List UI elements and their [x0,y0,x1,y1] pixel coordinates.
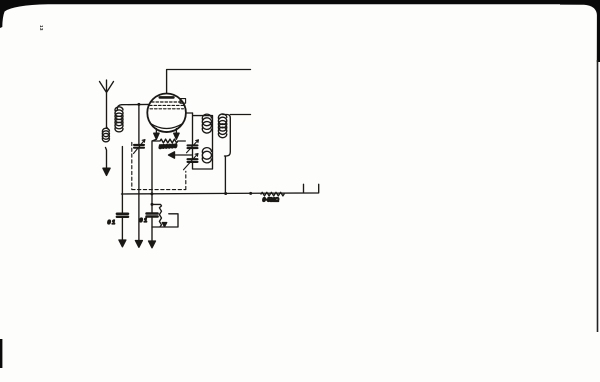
resistor R1 500000 [153,139,185,143]
svg-text:500000: 500000 [159,144,177,151]
wire: V1 grid cap riser [167,70,251,94]
V1 cathode arcs [151,124,183,132]
capacitor C2 0.1 [151,194,153,213]
wire: L4 top to IF rail [230,114,250,116]
ganged tuning dashed links [132,142,186,189]
potentiometer P1 [152,204,162,226]
node: potentiometer tap [151,203,154,206]
antenna lead arrow [103,168,110,175]
svg-text:0 1: 0 1 [108,220,116,226]
svg-text:0 1: 0 1 [140,218,148,224]
antenna coupling coil L1 [102,128,109,142]
node dots on bus A [150,192,153,195]
variable capacitor CV3 [188,159,198,162]
resistor R2 0.5M on bus A [261,192,284,196]
scan artifact: top-right corner black rounded edge [560,0,600,62]
V1 side contact square [180,99,186,104]
V1 top cap [160,96,174,99]
main bus A (chassis) [122,184,319,194]
triode V1 [147,94,186,133]
tuning coil L2 [121,147,123,195]
variable capacitor CV2 [188,145,198,148]
wire: L4 bottom down to bus [224,156,226,194]
svg-text:0·5MΩ: 0·5MΩ [263,198,280,204]
svg-text:13: 13 [39,25,44,31]
antenna [100,80,114,127]
wire: varcap to bus [138,149,140,241]
wire: V1 plate lead to oscillator coil [186,112,193,114]
scan artifact: top edge black strip with curved top-left corner [0,0,600,28]
ground lead 2 [138,240,140,242]
variable capacitor CV1 [134,145,144,148]
V1 filament pin arrows [155,129,157,134]
oscillator pickup coil L4 [223,115,231,157]
AVC arrow [173,154,192,156]
scan artifact: bottom-left black bar [0,339,2,368]
capacitor C1 0.1 [121,194,123,213]
wire: junction to variable capacitor [138,104,140,144]
wire: V1 cathode lead down [152,139,156,194]
scan artifact: right page edge line [597,60,599,332]
node: grid junction [137,103,140,106]
oscillator coil L3 with frame [193,113,213,169]
V1 grid dashes [150,102,185,109]
